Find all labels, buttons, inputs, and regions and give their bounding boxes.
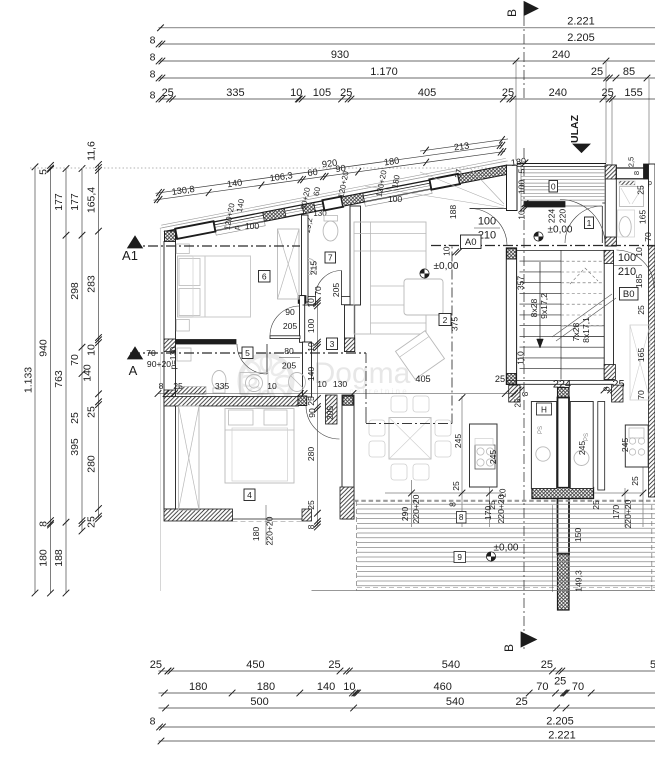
svg-text:9: 9 [457, 553, 462, 562]
room4 bottom wall [164, 509, 312, 522]
room4 closet [179, 406, 200, 510]
svg-text:540: 540 [446, 696, 464, 708]
roof overhang line [160, 161, 508, 228]
svg-text:4: 4 [247, 490, 252, 500]
bath7 right wall / hall upper wall [345, 206, 361, 352]
svg-text:25: 25 [541, 659, 553, 671]
svg-text:180: 180 [38, 549, 50, 567]
svg-text:149,3: 149,3 [574, 570, 584, 592]
svg-text:220+20: 220+20 [623, 499, 633, 528]
stair direction arrow down [537, 262, 544, 348]
svg-text:245: 245 [488, 450, 498, 465]
porch left dim labels [517, 160, 530, 220]
svg-text:1.170: 1.170 [370, 66, 398, 78]
slanted north facade wall band [165, 165, 509, 240]
hall left wall [303, 305, 312, 397]
stairwell left wall [506, 248, 516, 385]
label B0 [620, 288, 639, 301]
section marker B bottom [502, 632, 537, 652]
door room5 (80) [237, 344, 300, 374]
extension lines bottom [551, 505, 553, 592]
room 6 box [259, 271, 271, 283]
terrace dims right [573, 476, 640, 592]
svg-text:B: B [505, 9, 519, 17]
svg-text:105: 105 [313, 87, 331, 99]
svg-text:25: 25 [150, 659, 162, 671]
svg-text:70: 70 [313, 286, 323, 296]
svg-text:8: 8 [38, 521, 50, 527]
svg-text:335: 335 [215, 381, 230, 391]
svg-text:10: 10 [267, 381, 277, 391]
stair bottom dims [510, 379, 625, 394]
svg-text:25: 25 [514, 398, 523, 407]
svg-text:5: 5 [38, 169, 50, 175]
svg-text:220+20: 220+20 [496, 494, 506, 523]
extension lines top [516, 61, 649, 165]
living room door labels [474, 216, 500, 242]
bottom dimension chain rows [150, 659, 655, 745]
svg-text:245: 245 [620, 438, 630, 453]
svg-text:H: H [541, 406, 547, 415]
slanted dimension line S3 [420, 136, 508, 154]
svg-text:220+20: 220+20 [411, 494, 421, 523]
svg-text:Dogma: Dogma [314, 357, 411, 390]
svg-text:140: 140 [317, 681, 335, 693]
facade hatched pier 2 [263, 208, 286, 221]
stair dashed upper flight [570, 268, 598, 284]
svg-text:280: 280 [306, 447, 316, 462]
svg-text:224: 224 [547, 209, 557, 224]
terrace dims left [400, 494, 506, 523]
terrace dim line y=493 [385, 394, 646, 527]
roof valley dashed lines [365, 168, 504, 208]
terrace boundaries [312, 501, 655, 591]
svg-text:5: 5 [245, 348, 250, 358]
room6 / bath7 divider wall [302, 215, 309, 302]
section line A [128, 246, 453, 424]
svg-text:213: 213 [453, 141, 470, 153]
svg-text:155: 155 [624, 87, 642, 99]
svg-text:165: 165 [636, 348, 646, 363]
svg-text:6: 6 [262, 271, 267, 281]
room4 top wall [164, 396, 307, 406]
svg-text:460: 460 [434, 681, 452, 693]
room 8 box [457, 512, 467, 524]
top dimension chain rows [150, 16, 655, 103]
facade hatched column 3 [302, 203, 316, 214]
svg-text:245: 245 [453, 434, 463, 449]
svg-text:188: 188 [53, 549, 65, 567]
stair treads left flight [520, 250, 562, 379]
svg-text:8x17,1: 8x17,1 [581, 317, 591, 343]
svg-text:170: 170 [611, 505, 621, 520]
stair treads right flight [561, 261, 604, 369]
bath7 bottom wall + door [298, 271, 350, 343]
svg-text:405: 405 [418, 87, 436, 99]
room6 closet [278, 229, 300, 299]
right outer wall upper [649, 164, 655, 497]
svg-text:25: 25 [515, 696, 527, 708]
facade pier 5 [429, 174, 460, 190]
svg-text:8: 8 [150, 34, 156, 46]
svg-text:405: 405 [415, 374, 430, 384]
svg-text:140: 140 [306, 367, 316, 382]
room 7 box [325, 252, 336, 263]
WC top right washer [619, 181, 644, 207]
svg-text:940: 940 [38, 339, 50, 357]
svg-text:450: 450 [246, 659, 264, 671]
room6 bed [178, 256, 251, 317]
interior dim chain y=390 [155, 374, 518, 397]
bath7 toilet [323, 216, 338, 242]
svg-text:25: 25 [636, 185, 646, 195]
svg-text:150: 150 [573, 528, 583, 543]
svg-text:9x17,2: 9x17,2 [539, 293, 549, 319]
svg-text:A0: A0 [465, 237, 477, 248]
svg-text:240: 240 [549, 87, 567, 99]
svg-text:5: 5 [650, 659, 655, 671]
svg-text:25: 25 [306, 500, 316, 510]
stairwell right wall [604, 250, 615, 379]
svg-text:p=130: p=130 [169, 346, 178, 369]
svg-text:180: 180 [257, 681, 275, 693]
elevation marker hall [534, 225, 573, 242]
svg-text:85: 85 [623, 66, 635, 78]
vertical dim chain x=317 [306, 298, 321, 531]
svg-text:8: 8 [150, 51, 156, 63]
svg-text:205: 205 [282, 361, 297, 371]
door hall->dining 90 [306, 406, 340, 440]
kitchen bottom hatched beam [532, 488, 594, 499]
svg-text:2.205: 2.205 [546, 715, 574, 727]
dining table [369, 396, 451, 480]
svg-text:80: 80 [284, 346, 294, 356]
svg-text:395: 395 [69, 438, 81, 456]
svg-text:8: 8 [632, 171, 641, 175]
room 4 box [244, 489, 255, 501]
stair left dim 110/357 marks [0, 0, 1, 1]
svg-text:205: 205 [325, 406, 335, 421]
kitchen pier dims [514, 391, 531, 407]
section line B vertical [523, 16, 525, 652]
hall right wall lower with hatch [326, 395, 355, 519]
svg-text:920: 920 [321, 158, 338, 170]
stairwell bottom wall [506, 380, 613, 382]
svg-text:375: 375 [450, 317, 460, 332]
right wardrobe [630, 325, 650, 400]
svg-text:0: 0 [551, 181, 556, 191]
svg-text:10.: 10. [442, 244, 452, 256]
living door arc [470, 209, 508, 247]
porch top wall [517, 164, 606, 167]
svg-text:90: 90 [307, 408, 317, 418]
svg-text:185: 185 [634, 274, 644, 289]
living sofa [354, 222, 426, 334]
elevation marker terrace [486, 543, 519, 562]
svg-text:60: 60 [307, 167, 319, 178]
svg-text:100: 100 [388, 194, 403, 204]
svg-text:8x28: 8x28 [529, 298, 539, 317]
kitchen right wall [598, 402, 605, 491]
svg-text:25: 25 [86, 406, 98, 418]
room 1 box [585, 217, 594, 229]
svg-text:25: 25 [173, 381, 183, 391]
svg-text:25: 25 [69, 412, 81, 424]
kitchen tall unit H [531, 402, 556, 489]
svg-text:10: 10 [517, 210, 527, 220]
bath7 sink [308, 259, 316, 275]
svg-text:298: 298 [69, 282, 81, 300]
svg-text:5: 5 [517, 168, 527, 173]
svg-text:25: 25 [451, 481, 461, 491]
facade solid pier 1 [175, 221, 215, 239]
svg-text:215: 215 [309, 261, 319, 276]
corner column top-left [165, 231, 176, 242]
facade perpendicular labels [223, 168, 464, 234]
svg-text:130: 130 [333, 379, 348, 389]
facade pier 4 [322, 197, 343, 211]
svg-text:7x28: 7x28 [571, 322, 581, 341]
svg-text:90: 90 [285, 307, 295, 317]
room4 sliding door dims [251, 505, 275, 545]
WC oval tub [619, 217, 631, 237]
armchair [396, 331, 445, 379]
svg-text:100: 100 [306, 319, 316, 334]
svg-text:10: 10 [86, 344, 98, 356]
svg-text:8: 8 [459, 513, 464, 522]
svg-text:290: 290 [400, 507, 410, 522]
top right wall [616, 157, 648, 179]
watermark logo [240, 355, 411, 407]
porch right wall [605, 165, 616, 246]
svg-text:2,5: 2,5 [627, 157, 636, 168]
svg-text:2.205: 2.205 [567, 32, 595, 44]
ULAZ arrow [573, 144, 590, 153]
section line A1 [122, 236, 300, 263]
terrace decking room 9 [357, 504, 655, 590]
left vertical dimension chains [23, 141, 102, 596]
svg-text:8: 8 [448, 502, 458, 507]
svg-text:n e k r e t n i n e: n e k r e t n i n e [349, 387, 407, 396]
svg-text:8: 8 [150, 715, 156, 727]
stair break line [552, 294, 612, 337]
svg-text:A: A [129, 363, 138, 378]
room4 bed [225, 409, 294, 484]
room 6 bottom wall [176, 340, 237, 345]
svg-text:11,6: 11,6 [86, 141, 98, 161]
room5 counter [177, 387, 206, 395]
svg-text:188: 188 [448, 205, 458, 220]
svg-text:220: 220 [558, 209, 568, 224]
svg-text:PS: PS [538, 426, 544, 434]
svg-text:763: 763 [53, 370, 65, 388]
svg-text:ULAZ: ULAZ [569, 114, 581, 143]
svg-text:25: 25 [328, 659, 340, 671]
svg-text:100: 100 [245, 221, 260, 231]
svg-text:A1: A1 [122, 248, 138, 263]
svg-text:8: 8 [150, 68, 156, 80]
svg-text:2: 2 [443, 315, 448, 325]
svg-text:280: 280 [86, 455, 98, 473]
svg-text:70: 70 [536, 681, 548, 693]
svg-text:25: 25 [495, 374, 505, 384]
room5 washbasin [240, 373, 268, 395]
slanted dimension line S2 [156, 142, 527, 196]
left outer wall [164, 242, 176, 510]
svg-text:B0: B0 [623, 289, 635, 300]
svg-text:205: 205 [283, 321, 298, 331]
section marker B top [505, 2, 538, 18]
room5 shower [289, 373, 306, 392]
svg-text:100: 100 [517, 180, 527, 195]
kitchen tall unit right of pier [570, 402, 593, 489]
svg-text:500: 500 [250, 696, 268, 708]
room 5 box [242, 347, 253, 359]
svg-text:PS: PS [584, 433, 590, 441]
facade window sills [215, 189, 432, 235]
ULAZ entrance label [569, 114, 581, 143]
svg-text:2.221: 2.221 [548, 729, 576, 741]
svg-text:25: 25 [636, 305, 646, 315]
svg-text:240: 240 [552, 49, 570, 61]
room 0 box [549, 181, 558, 193]
coffee table [404, 279, 443, 315]
svg-text:540: 540 [442, 659, 460, 671]
svg-text:1.133: 1.133 [23, 367, 35, 393]
room 3 box [327, 338, 338, 350]
svg-text:25: 25 [487, 500, 497, 510]
svg-text:3: 3 [330, 339, 335, 349]
svg-text:177: 177 [69, 193, 81, 211]
svg-text:130: 130 [313, 209, 327, 218]
section line A0 [431, 235, 655, 256]
svg-text:25: 25 [554, 676, 566, 688]
svg-text:8: 8 [150, 89, 156, 101]
svg-text:10: 10 [634, 247, 644, 257]
svg-text:180: 180 [251, 527, 261, 542]
terrace edge thick dashed line [354, 500, 655, 502]
svg-text:140: 140 [82, 364, 94, 382]
svg-text:8: 8 [521, 391, 530, 396]
room6 nightstands [176, 244, 189, 331]
slanted dimension line S1 [154, 148, 507, 203]
kitchen right counter [625, 425, 648, 467]
room5 washer [177, 348, 191, 361]
svg-text:10: 10 [343, 681, 355, 693]
living room dims [450, 317, 631, 465]
svg-text:2.221: 2.221 [567, 16, 595, 28]
svg-text:70: 70 [643, 232, 653, 242]
svg-text:p: p [648, 180, 652, 187]
roof gutter double line [161, 158, 506, 227]
door hall->right 100/210 [614, 250, 654, 288]
svg-text:283: 283 [86, 275, 98, 293]
svg-text:90+20: 90+20 [147, 359, 171, 369]
porch bottom wall with door [524, 202, 606, 244]
svg-text:1: 1 [587, 218, 592, 228]
kitchen row hatch piers [509, 385, 623, 402]
door hall->room6 90 [270, 306, 300, 339]
svg-text:10: 10 [290, 87, 302, 99]
corner pillar right end [507, 165, 518, 210]
room 9 box [454, 552, 466, 563]
svg-text:25: 25 [86, 516, 98, 528]
kitchen counter island [451, 424, 508, 497]
svg-text:70: 70 [146, 348, 156, 358]
room 2 box [439, 314, 451, 326]
svg-text:±0,00: ±0,00 [548, 225, 573, 236]
entry hall labels [547, 209, 568, 224]
facade window glazing lines [214, 183, 430, 227]
svg-text:180: 180 [189, 681, 207, 693]
svg-text:177: 177 [53, 193, 65, 211]
door porch->hall arc [560, 200, 605, 245]
svg-text:205: 205 [331, 283, 341, 298]
svg-text:B: B [502, 644, 516, 652]
room5 toilet [212, 371, 226, 394]
svg-text:165,4: 165,4 [86, 187, 98, 213]
svg-text:±0,00: ±0,00 [434, 261, 459, 272]
svg-text:7: 7 [328, 252, 333, 262]
elevation marker living [420, 261, 459, 278]
svg-text:335: 335 [226, 87, 244, 99]
svg-text:25: 25 [630, 476, 640, 486]
svg-text:8: 8 [159, 381, 164, 391]
svg-text:10: 10 [317, 379, 327, 389]
svg-text:70: 70 [636, 390, 646, 400]
stairwell top edge [517, 249, 606, 251]
central vertical wall band [558, 388, 570, 611]
svg-text:25: 25 [591, 66, 603, 78]
svg-text:±0,00: ±0,00 [494, 543, 519, 554]
svg-text:70: 70 [572, 681, 584, 693]
stair labels [516, 276, 592, 365]
hall right side dims [634, 180, 653, 400]
porch decking [521, 170, 605, 201]
svg-text:25: 25 [306, 396, 316, 406]
svg-text:25: 25 [591, 500, 601, 510]
svg-text:245: 245 [577, 441, 587, 456]
svg-text:165: 165 [638, 210, 648, 225]
svg-text:70: 70 [69, 354, 81, 366]
svg-text:930: 930 [331, 49, 349, 61]
dotted reference line top [30, 167, 505, 169]
